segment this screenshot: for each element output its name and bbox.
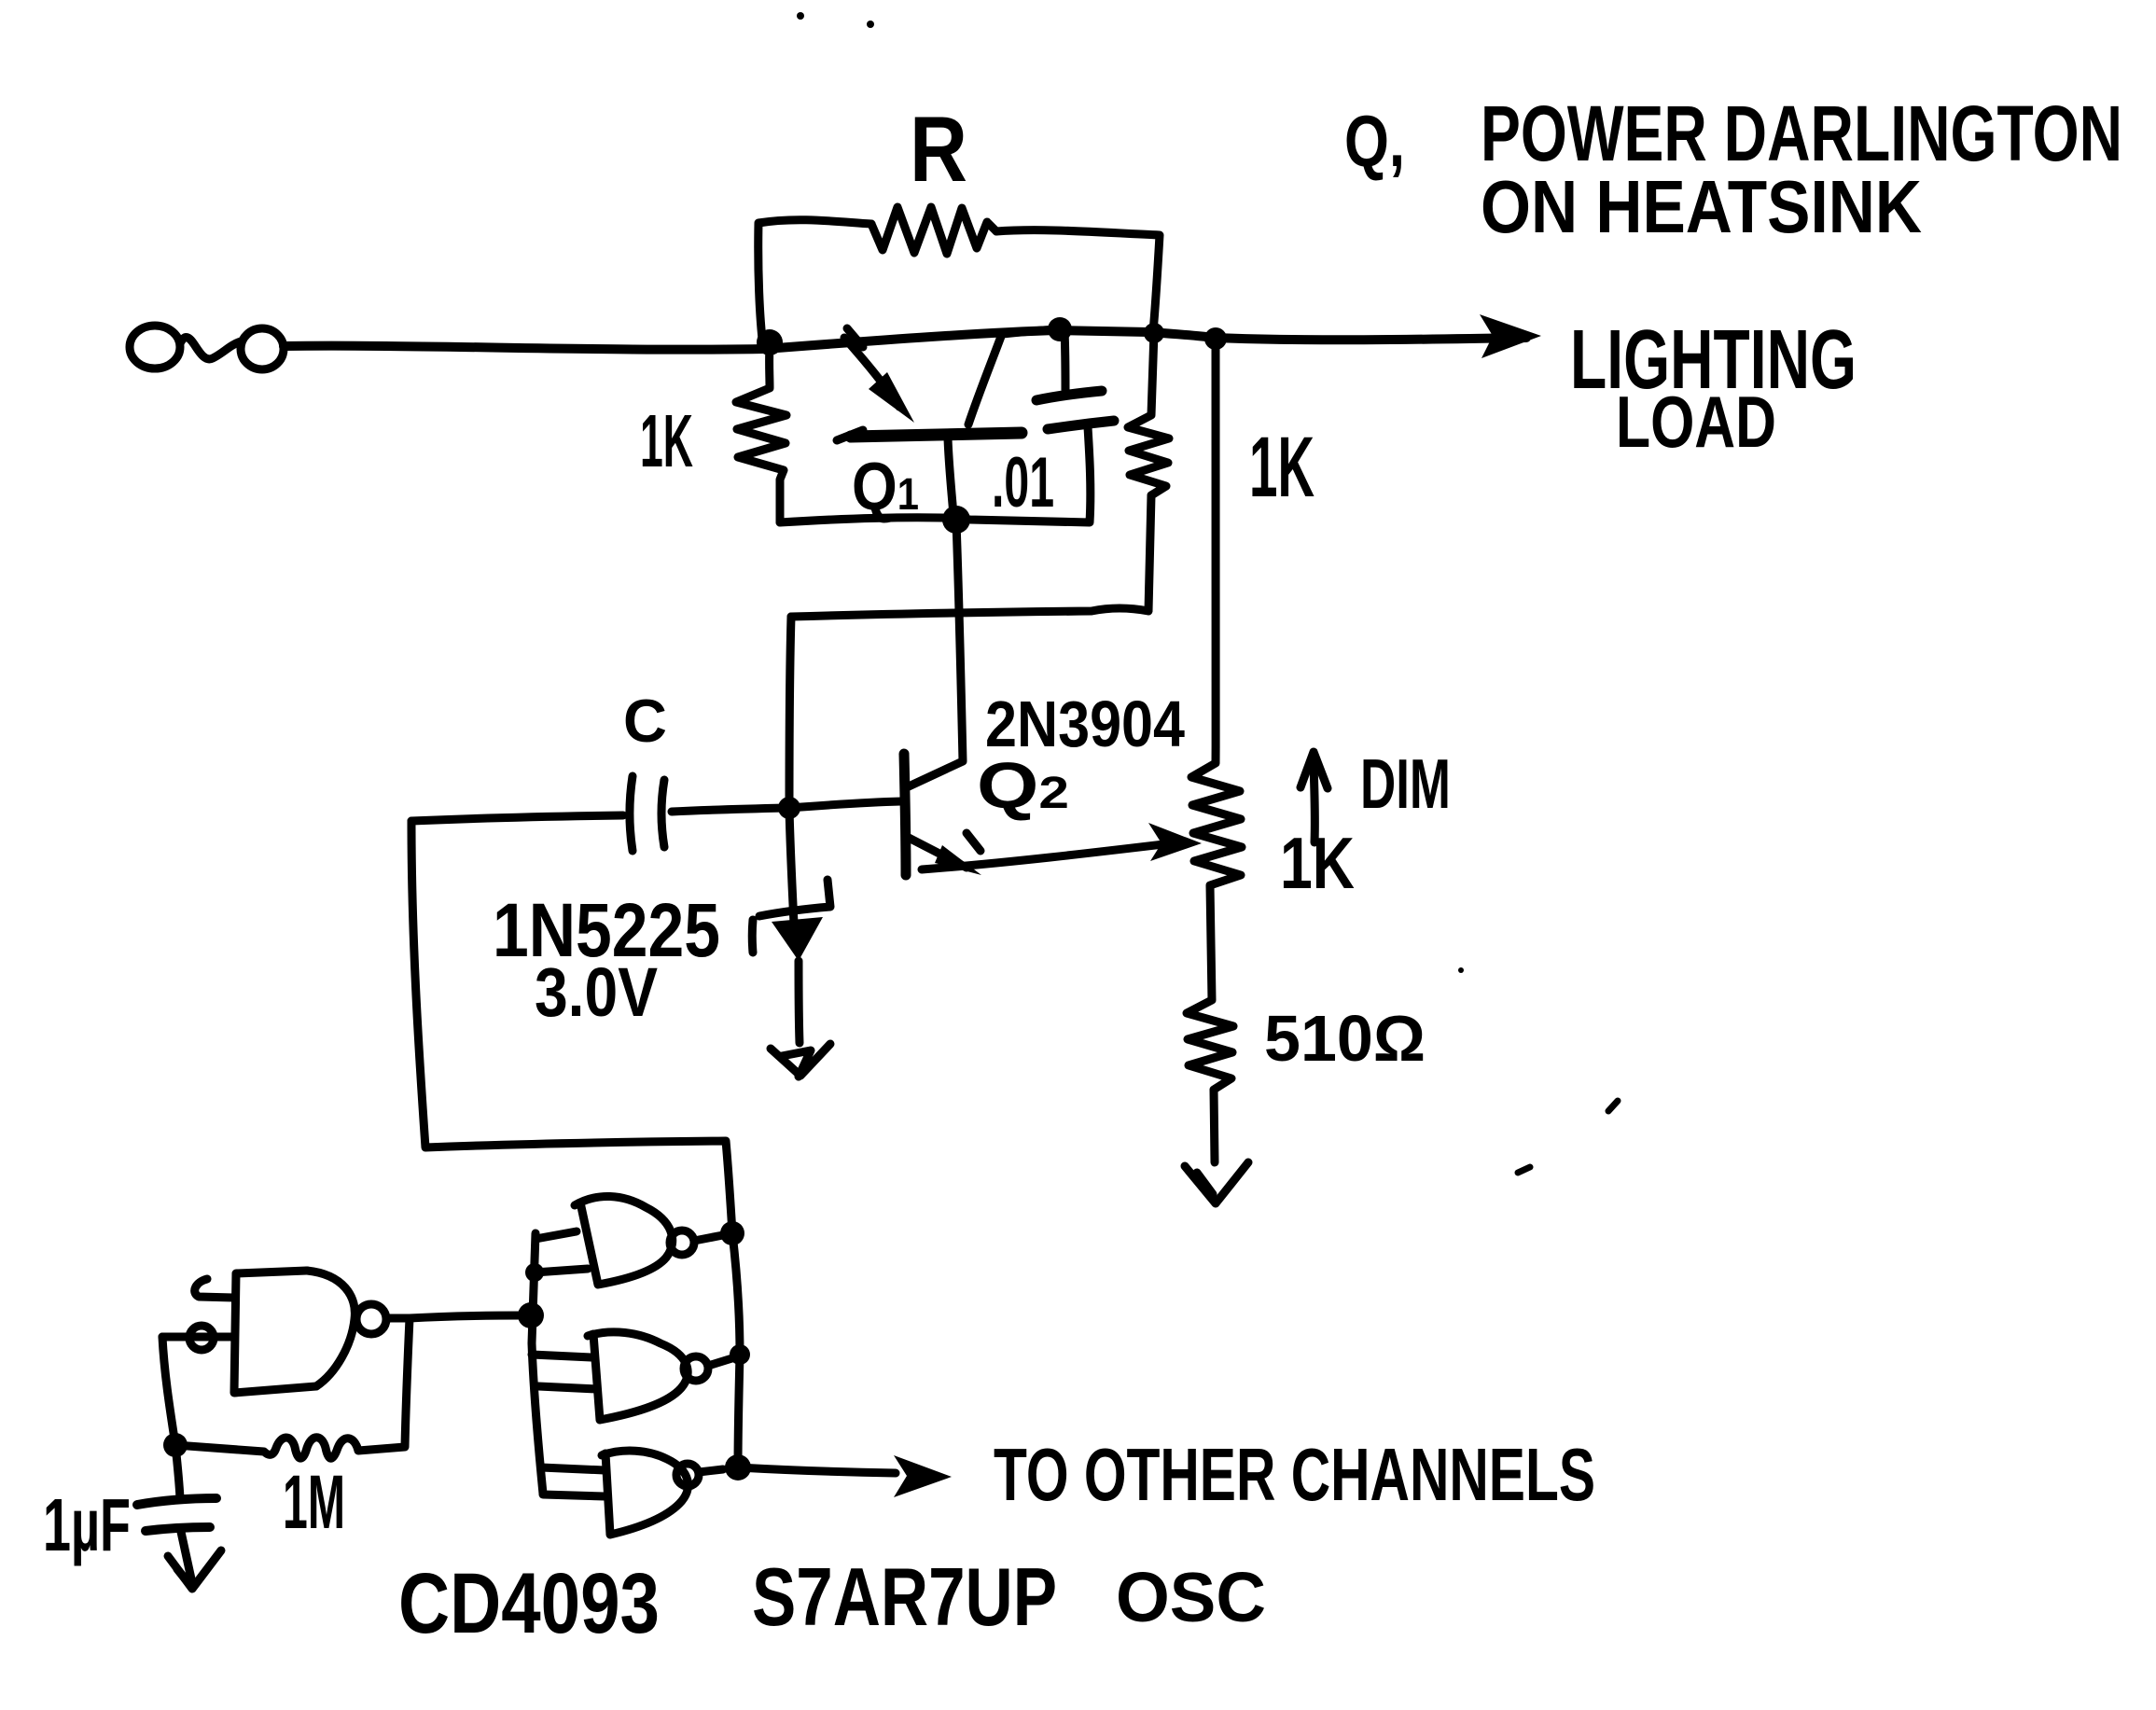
svg-text:510Ω: 510Ω (1264, 1002, 1426, 1075)
svg-text:C: C (623, 687, 667, 755)
svg-text:TO OTHER CHANNELS: TO OTHER CHANNELS (994, 1433, 1595, 1516)
svg-text:S7AR7UP: S7AR7UP (752, 1550, 1057, 1643)
svg-text:3.0V: 3.0V (535, 953, 658, 1031)
svg-text:DIM: DIM (1360, 744, 1451, 823)
svg-text:OSC: OSC (1116, 1558, 1266, 1636)
svg-text:1K: 1K (640, 399, 693, 482)
svg-text:1K: 1K (1280, 822, 1355, 904)
svg-text:POWER DARLINGTON: POWER DARLINGTON (1481, 90, 2122, 177)
svg-text:R: R (910, 97, 967, 201)
svg-text:1M: 1M (283, 1460, 345, 1545)
svg-text:ON HEATSINK: ON HEATSINK (1481, 165, 1922, 248)
svg-text:CD4093: CD4093 (398, 1556, 660, 1651)
svg-text:.01: .01 (992, 443, 1054, 522)
svg-text:Q,: Q, (1344, 100, 1405, 182)
svg-text:1µF: 1µF (43, 1483, 131, 1566)
svg-text:LOAD: LOAD (1616, 381, 1776, 463)
svg-text:1K: 1K (1249, 420, 1314, 515)
